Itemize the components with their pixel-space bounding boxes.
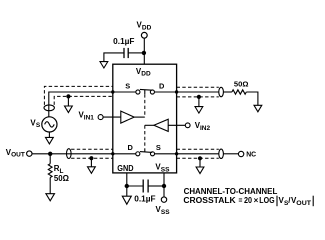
switch SW2 lever bbox=[140, 151, 152, 154]
dashed control line SW1 to driver A1 bbox=[144, 94, 146, 117]
source VS circle bbox=[42, 117, 57, 132]
wire VOUT terminal to node bbox=[32, 153, 50, 155]
switch SW1 lever bbox=[140, 88, 152, 91]
svg-text:50Ω: 50Ω bbox=[234, 80, 249, 89]
wire VSS node to VSS terminal bbox=[163, 186, 165, 197]
note line 2 CROSSTALK equation bbox=[183, 196, 311, 207]
label C2 value 0.1uF bbox=[134, 194, 155, 203]
label NC bbox=[246, 150, 257, 159]
dashed coax shield bottom (S out) bbox=[177, 157, 219, 159]
svg-text:DD: DD bbox=[141, 71, 151, 78]
wire coax to resistor R2 bbox=[223, 91, 232, 93]
svg-text:DD: DD bbox=[142, 25, 152, 32]
terminal VOUT bbox=[27, 151, 32, 156]
op-amp driver A1 (V_IN1 buffer) bbox=[121, 111, 134, 123]
wire D side of bottom switch bbox=[113, 153, 136, 155]
svg-text:S: S bbox=[156, 143, 161, 152]
wire VDD terminal to box top bbox=[143, 38, 145, 64]
svg-text:IN2: IN2 bbox=[200, 125, 211, 132]
label VSS terminal bbox=[156, 205, 171, 216]
dashed control line A2 to SW2 bbox=[144, 125, 146, 149]
dashed coax shield top (D out) bbox=[177, 86, 219, 88]
ground symbol bottom right shield bbox=[196, 167, 204, 174]
svg-text:CHANNEL-TO-CHANNEL: CHANNEL-TO-CHANNEL bbox=[184, 187, 278, 196]
svg-text:0.1µF: 0.1µF bbox=[113, 37, 134, 46]
junction dot VOUT node bbox=[48, 152, 52, 156]
junction dot VDD node bbox=[142, 51, 146, 55]
coax shield opening at VOUT bbox=[67, 149, 72, 159]
capacitor C1 0.1uF plates bbox=[124, 48, 128, 58]
ground symbol at VS bbox=[46, 137, 54, 144]
svg-text:NC: NC bbox=[246, 150, 257, 159]
wire A1 output to control node bbox=[134, 116, 145, 118]
resistor RL zigzag bbox=[48, 164, 52, 178]
wire A2 input to VIN2 terminal bbox=[168, 124, 185, 126]
junction dot S out wire at box edge bbox=[175, 152, 178, 155]
wire D out to coax bbox=[177, 91, 219, 93]
label VDD pin inside box bbox=[136, 67, 151, 78]
svg-text:SS: SS bbox=[161, 209, 170, 216]
ground symbol bottom left shield bbox=[88, 167, 96, 174]
junction dot shield ground bottom left bbox=[89, 156, 93, 160]
wire C2 to VSS node bbox=[148, 185, 164, 187]
label VOUT bbox=[6, 148, 25, 159]
wire VS center conductor to S terminal bbox=[49, 92, 113, 117]
svg-text:SS: SS bbox=[161, 166, 170, 173]
wire shield dot to ground bbox=[67, 96, 69, 106]
label VIN1 bbox=[79, 111, 95, 122]
ground symbol GND bbox=[122, 196, 131, 204]
wire S out to coax and NC bbox=[177, 153, 219, 155]
ground symbol at C1 bbox=[100, 62, 108, 68]
wire VOUT node to box (D of SW2) bbox=[50, 153, 113, 155]
terminal NC bbox=[238, 151, 243, 156]
ground symbol at RL bbox=[46, 194, 55, 201]
label S (top switch source) bbox=[125, 81, 130, 90]
label R2 value 50ohm bbox=[234, 80, 249, 89]
dashed coax shield outer (VS to box) bbox=[44, 86, 112, 105]
label RL value 50ohm bbox=[54, 174, 69, 183]
dashed coax shield top (S out) bbox=[177, 148, 219, 150]
wire C1 to ground bbox=[104, 53, 124, 62]
terminal VIN1 bbox=[98, 115, 103, 120]
label D (top switch drain) bbox=[159, 81, 165, 90]
ground symbol top left shield bbox=[65, 106, 73, 113]
wire A2 output to control node bbox=[145, 124, 154, 126]
switch SW2 contact circles bbox=[136, 152, 155, 156]
svg-text:D: D bbox=[159, 81, 165, 90]
label D (bottom switch drain) bbox=[128, 143, 134, 152]
wire shield dot to ground bbox=[90, 158, 92, 167]
wire VS to ground bbox=[48, 132, 50, 137]
svg-text:×: × bbox=[254, 196, 259, 205]
label S (bottom switch source) bbox=[156, 143, 161, 152]
dashed coax shield bottom (VOUT to box) bbox=[71, 157, 113, 159]
dashed coax shield bottom (D out) bbox=[177, 96, 219, 98]
note line 1 CHANNEL-TO-CHANNEL bbox=[184, 187, 278, 196]
junction dot D out wire at box edge bbox=[175, 90, 178, 93]
label RL bbox=[54, 164, 64, 175]
ground symbol at R2 bbox=[254, 105, 262, 112]
terminal VIN2 bbox=[185, 123, 190, 128]
svg-text:GND: GND bbox=[117, 164, 134, 173]
IC box U1 (switch package outline) bbox=[113, 64, 177, 173]
junction dot VSS node bbox=[162, 184, 166, 188]
wire D side of top switch bbox=[155, 91, 177, 93]
junction dot SW2 wire at box edge bbox=[111, 152, 114, 155]
wire shield dot to ground bbox=[199, 158, 201, 167]
svg-text:S: S bbox=[36, 122, 41, 129]
wire VSS pin down bbox=[163, 173, 165, 186]
junction dot GND node bbox=[125, 184, 129, 188]
label GND pin bbox=[117, 164, 134, 173]
switch SW2 control stem bbox=[144, 149, 146, 152]
sine wave inside VS bbox=[45, 122, 55, 127]
label C1 value 0.1uF bbox=[113, 37, 134, 46]
terminal VDD bbox=[141, 32, 147, 38]
capacitor C2 0.1uF plates bbox=[143, 180, 148, 193]
wire R2 to ground bbox=[246, 92, 258, 105]
coax shield opening at VS bbox=[44, 105, 54, 111]
wire VDD node to capacitor C1 bbox=[128, 52, 144, 54]
wire GND pin down bbox=[126, 173, 128, 186]
junction dot shield ground bottom right bbox=[198, 156, 202, 160]
resistor R2 50ohm zigzag bbox=[232, 90, 246, 94]
svg-text:LOG: LOG bbox=[259, 196, 274, 205]
terminal VSS bbox=[161, 197, 166, 202]
svg-text:20: 20 bbox=[244, 196, 252, 205]
label VDD terminal bbox=[137, 21, 152, 32]
wire VIN1 to A1 input bbox=[103, 116, 121, 118]
wire GND node to ground bbox=[126, 186, 128, 196]
junction dot D wire at box edge bbox=[111, 90, 114, 93]
wire GND node to capacitor C2 bbox=[127, 185, 143, 187]
resistor RL stem bbox=[49, 154, 51, 164]
dashed coax shield inner (VS to box) bbox=[54, 96, 113, 105]
wire shield dot to ground bbox=[198, 97, 200, 107]
switch SW1 control stem bbox=[144, 90, 146, 94]
coax shield opening S out bbox=[219, 149, 224, 158]
junction dot shield ground top left bbox=[66, 94, 70, 98]
label VIN2 bbox=[195, 121, 211, 132]
ground symbol top right shield bbox=[195, 107, 203, 114]
svg-text:0.1µF: 0.1µF bbox=[134, 194, 155, 203]
svg-text:OUT: OUT bbox=[11, 152, 25, 159]
svg-text:D: D bbox=[128, 143, 134, 152]
wire S side of top switch bbox=[113, 91, 136, 93]
coax shield opening D out bbox=[219, 87, 224, 96]
switch SW1 contact circles bbox=[136, 90, 155, 94]
label VSS pin inside box bbox=[155, 162, 170, 173]
svg-text:=: = bbox=[239, 196, 243, 205]
svg-text:S: S bbox=[125, 81, 130, 90]
label VS bbox=[30, 118, 41, 129]
wire RL to ground bbox=[49, 178, 51, 194]
svg-text:OUT: OUT bbox=[296, 200, 311, 207]
equation magnitude bar right bbox=[312, 196, 314, 207]
svg-text:50Ω: 50Ω bbox=[54, 174, 69, 183]
equation magnitude bar left bbox=[276, 196, 278, 207]
junction dot shield ground top right bbox=[197, 95, 201, 99]
wire coax to NC terminal bbox=[223, 153, 238, 155]
svg-text:CROSSTALK: CROSSTALK bbox=[183, 196, 236, 205]
op-amp driver A2 (V_IN2 buffer) bbox=[154, 119, 168, 131]
svg-text:IN1: IN1 bbox=[84, 114, 95, 121]
wire S side of bottom switch bbox=[155, 153, 177, 155]
dashed coax shield top (VOUT to box) bbox=[71, 148, 113, 150]
